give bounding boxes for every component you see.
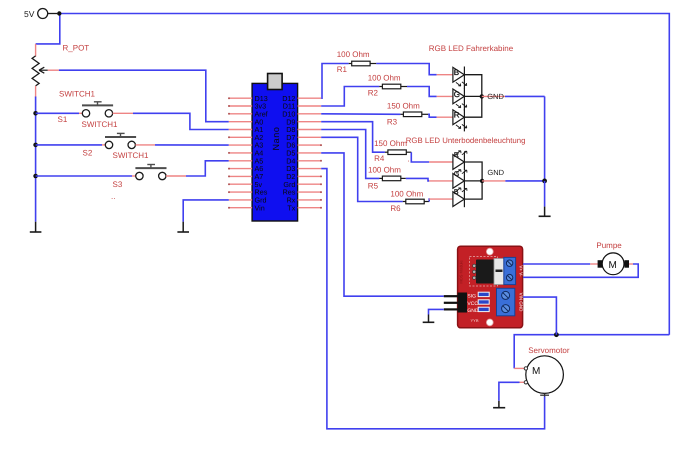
- svg-text:R: R: [454, 152, 459, 159]
- svg-text:Vin: Vin: [255, 203, 265, 212]
- 5V supply symbol: [24, 9, 57, 20]
- svg-text:R6: R6: [390, 204, 401, 213]
- header pin GND: [444, 308, 458, 310]
- transistor heatsink tab: [494, 259, 504, 285]
- terminal block V+/V-: [504, 257, 516, 284]
- wire D8 to R5: [321, 130, 379, 179]
- node GND rail junction: [542, 179, 547, 184]
- svg-text:..: ..: [111, 192, 115, 201]
- svg-text:150 Ohm: 150 Ohm: [387, 102, 420, 111]
- ground LED rail: [539, 207, 551, 217]
- svg-text:G: G: [454, 171, 459, 178]
- LED2 blue (B): [429, 188, 467, 207]
- pad SIG: [478, 292, 489, 296]
- wire S2 to A3: [155, 144, 229, 146]
- svg-text:S1: S1: [58, 115, 68, 124]
- resistor R4 150 Ohm: [374, 139, 412, 164]
- svg-text:MOS Module: MOS Module: [459, 260, 464, 284]
- switch S2: [82, 120, 156, 158]
- svg-text:GND: GND: [487, 92, 504, 101]
- svg-text:R5: R5: [368, 182, 379, 191]
- svg-text:M: M: [532, 366, 540, 377]
- wire D11 to R2: [321, 87, 379, 107]
- transistor pin holes: [473, 264, 476, 267]
- wire 5V down to R_POT: [36, 14, 60, 44]
- wire GND lead group1: [482, 95, 505, 97]
- ground servo: [493, 401, 505, 408]
- svg-text:GND: GND: [487, 168, 504, 177]
- node group1 GND junction: [480, 94, 484, 98]
- nano right pin labels: [282, 94, 296, 213]
- wire R4 to LED2 R: [411, 152, 429, 162]
- pad GND: [478, 307, 489, 311]
- svg-text:SWITCH1: SWITCH1: [82, 120, 119, 129]
- svg-text:R4: R4: [374, 154, 385, 163]
- wire D5 to module SIG: [321, 153, 444, 296]
- LED2 red (R): [429, 151, 467, 170]
- silkscreen dashed box: [470, 257, 498, 287]
- svg-text:S3: S3: [113, 180, 123, 189]
- svg-text:Tx: Tx: [287, 203, 295, 212]
- wire 5V rail bottom: [514, 335, 669, 369]
- svg-text:R_POT: R_POT: [63, 44, 90, 53]
- wire LED cathode bus group1: [464, 75, 481, 118]
- resistor R6 100 Ohm: [390, 189, 429, 213]
- resistor R3 150 Ohm: [387, 102, 428, 127]
- svg-text:R1: R1: [337, 65, 348, 74]
- wire junction to module VIN: [523, 297, 556, 335]
- LED green (G): [437, 88, 467, 110]
- resistor R2 100 Ohm: [368, 73, 407, 97]
- motor Pumpe: [596, 241, 629, 274]
- node group2 GND junction: [480, 179, 484, 183]
- wire pot wiper to A0: [59, 70, 229, 122]
- wire S1 to A1: [133, 113, 229, 129]
- svg-text:100 Ohm: 100 Ohm: [390, 189, 423, 198]
- svg-text:100 Ohm: 100 Ohm: [368, 166, 401, 175]
- svg-text:SWITCH1: SWITCH1: [113, 151, 150, 160]
- svg-text:R2: R2: [368, 88, 379, 97]
- wire module V+ to pump: [523, 263, 590, 265]
- ground nano: [177, 222, 189, 232]
- svg-text:RGB LED Fahrerkabine: RGB LED Fahrerkabine: [429, 44, 514, 53]
- header pin SIG: [444, 295, 458, 297]
- LED blue (B): [437, 67, 467, 89]
- resistor R5 100 Ohm: [368, 166, 406, 191]
- wire D9 to R4: [321, 122, 385, 153]
- wire D3 to servo signal: [321, 169, 544, 429]
- wire down to ground: [544, 181, 546, 207]
- terminal block VIN/GND: [497, 288, 515, 316]
- svg-text:RGB LED Unterbodenbeleuchtung: RGB LED Unterbodenbeleuchtung: [406, 136, 526, 145]
- LED2 green (G): [429, 170, 467, 189]
- nano left pin leads: [229, 98, 252, 208]
- svg-text:5V: 5V: [24, 9, 35, 19]
- node S3 junction: [33, 174, 38, 179]
- svg-text:G: G: [454, 90, 460, 99]
- svg-text:Servomotor: Servomotor: [528, 346, 570, 355]
- nano right pin leads: [298, 98, 322, 208]
- wire nano Grd to ground: [183, 200, 229, 222]
- node 5V junction: [57, 11, 61, 15]
- node 5V/VIN junction: [554, 332, 559, 337]
- pin tip dots: [228, 97, 322, 209]
- wire left rail: [35, 97, 37, 222]
- wire R3 to LED R: [428, 114, 437, 117]
- wire module GND pin to ground: [429, 309, 444, 314]
- wire rail to S2: [36, 144, 102, 146]
- wire R6 to LED2 B: [428, 199, 431, 201]
- mounting hole top: [486, 248, 493, 255]
- wire GND lead group2: [482, 180, 505, 182]
- node S1 junction: [33, 111, 38, 116]
- svg-text:Pumpe: Pumpe: [596, 241, 622, 250]
- wire group2 GND to ground: [505, 180, 544, 182]
- ground left rail: [30, 222, 42, 232]
- wire rail to S1: [36, 112, 79, 114]
- switch S1: [58, 90, 134, 125]
- svg-text:GND: GND: [467, 308, 479, 314]
- wire R5 to LED2 G: [406, 178, 429, 181]
- node S2 junction: [33, 143, 38, 148]
- svg-text:V+ V-: V+ V-: [519, 265, 524, 277]
- svg-text:M: M: [609, 260, 617, 271]
- mounting hole bottom: [486, 319, 493, 326]
- wire group1 GND to ground rail: [505, 95, 545, 97]
- wire R1 to LED B: [376, 64, 436, 75]
- header pin VCC: [444, 302, 458, 304]
- wire R2 to LED G: [407, 87, 437, 97]
- wire rail to S3: [36, 175, 132, 177]
- svg-text:VCC: VCC: [467, 301, 478, 307]
- wire LED cathode bus group2: [464, 162, 482, 199]
- svg-text:100 Ohm: 100 Ohm: [337, 50, 370, 59]
- nano left pin labels: [255, 94, 268, 213]
- switch S3: [111, 151, 186, 201]
- svg-text:SWITCH1: SWITCH1: [59, 90, 96, 99]
- svg-text:B: B: [454, 189, 459, 196]
- wire module V- to pump right: [523, 264, 638, 277]
- header body: [458, 293, 467, 313]
- wire D10 to R3: [321, 113, 400, 116]
- potentiometer R_POT: [32, 44, 89, 98]
- svg-text:R3: R3: [387, 118, 398, 127]
- svg-text:150 Ohm: 150 Ohm: [374, 139, 407, 148]
- ground module: [423, 315, 435, 323]
- wire D7 to R6: [321, 137, 403, 201]
- svg-text:SIG: SIG: [467, 294, 476, 300]
- svg-text:R: R: [454, 111, 460, 120]
- pad VCC: [478, 300, 489, 304]
- svg-text:YYB: YYB: [471, 318, 479, 323]
- wire S3 to A5: [186, 161, 229, 176]
- svg-text:VIN GND: VIN GND: [518, 293, 523, 313]
- LED red (R): [437, 109, 467, 131]
- svg-text:B: B: [454, 68, 459, 77]
- wire 5V top rail to right: [59, 14, 669, 335]
- module PCB: [458, 246, 523, 328]
- svg-text:Nano: Nano: [271, 127, 281, 151]
- svg-text:S2: S2: [83, 149, 93, 158]
- arduino nano body: [252, 74, 298, 222]
- motor Servomotor: [514, 346, 570, 397]
- transistor Q1 body: [476, 260, 494, 284]
- svg-text:100 Ohm: 100 Ohm: [368, 73, 401, 82]
- wire servo pin2 to ground: [499, 382, 520, 401]
- wire D12 to R1: [321, 64, 349, 99]
- resistor R1 100 Ohm: [337, 50, 377, 74]
